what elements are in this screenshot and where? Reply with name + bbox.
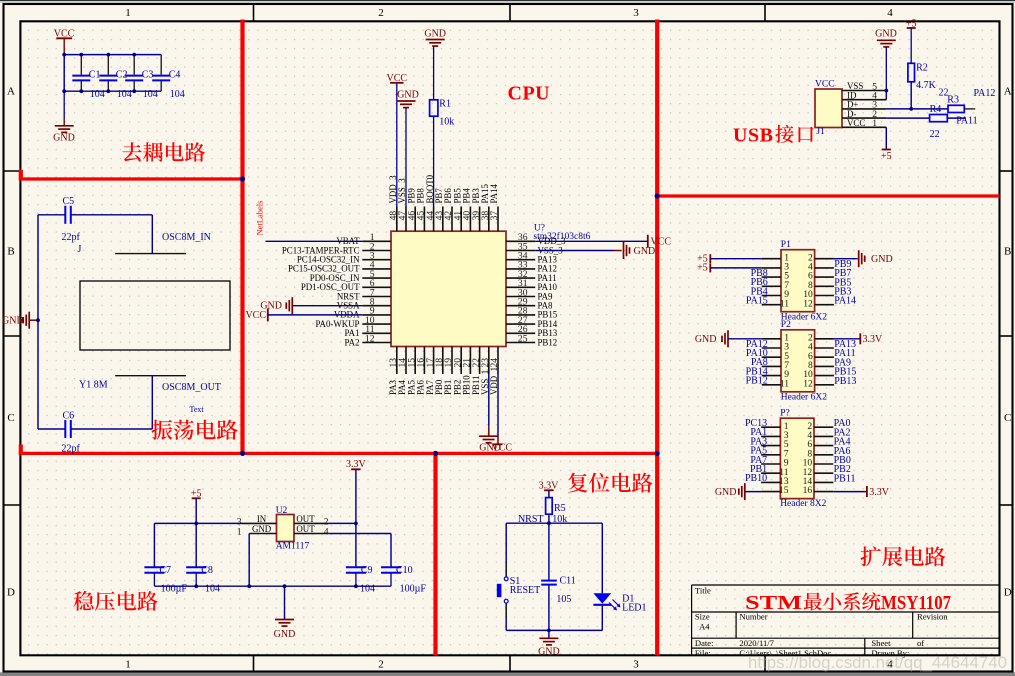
U? pin 8 VSSA (362, 305, 391, 307)
U? pin 4 PC15-OSC32_OUT (362, 268, 391, 270)
power +5 (USB bottom) (882, 149, 891, 151)
U? pin 45 PB8 (top) (423, 207, 425, 232)
svg-text:USB: USB (733, 125, 773, 147)
U? pin 22 PB11 (bottom) (479, 347, 481, 375)
svg-text:C8: C8 (201, 565, 213, 576)
U? pin 10 PA0-WKUP (362, 323, 391, 325)
svg-text:104: 104 (205, 584, 220, 595)
U? pin 40 PB4 (top) (469, 207, 471, 232)
svg-text:Size: Size (695, 612, 710, 622)
crystal Y1 body (80, 281, 230, 350)
resistor R4 (930, 115, 948, 122)
P2 pin 5 (762, 356, 781, 358)
wire R1 to BOOT0 (433, 116, 435, 206)
svg-text:4: 4 (324, 526, 329, 537)
P? pin 7 (761, 454, 780, 456)
svg-text:File:: File: (695, 648, 711, 658)
junction dot red lines C (433, 451, 438, 456)
wire P2 pin1 to GND (728, 338, 762, 340)
svg-text:R5: R5 (554, 503, 566, 514)
U? pin 25 PB12 (506, 342, 535, 344)
U? pin 26 PB13 (506, 332, 535, 334)
wire OUT pin2 (329, 522, 356, 524)
svg-text:LED1: LED1 (622, 602, 646, 613)
U? pin 23 VSS_1 (bottom) (488, 347, 490, 375)
U? pin 38 PA15 (top) (488, 207, 490, 232)
op IC U? body stm32f103c8t6 (391, 231, 506, 346)
svg-text:22pf: 22pf (62, 232, 81, 243)
P? pin 6 (814, 445, 833, 447)
svg-text:C: C (1004, 412, 1011, 424)
svg-text:22: 22 (930, 129, 940, 140)
capacitor C6 (64, 420, 66, 438)
svg-text:4: 4 (887, 7, 893, 19)
svg-text:R2: R2 (916, 63, 928, 74)
P? pin 1 (761, 426, 780, 428)
title block frame (692, 584, 1000, 586)
svg-text:C11: C11 (560, 575, 576, 586)
P2 pin 2 (815, 338, 834, 340)
U2 pin 1 GND (249, 533, 276, 535)
red partition line H3 (USB/expansion divider) (657, 194, 999, 197)
wire R3 right (964, 108, 975, 110)
svg-text:16: 16 (803, 485, 813, 496)
section title 扩展电路 (861, 546, 881, 566)
U? pin 17 PA7 (bottom) (433, 347, 435, 375)
P2 pin 7 (762, 365, 781, 367)
resistor R2 (908, 63, 915, 82)
P1 pin 7 (762, 285, 781, 287)
svg-text:37: 37 (489, 211, 500, 221)
wire regulator bottom rail (154, 585, 391, 587)
svg-text:OUT: OUT (296, 524, 315, 534)
svg-text:B: B (1004, 246, 1011, 258)
U? pin 42 PB6 (top) (451, 207, 453, 232)
U? pin 39 PB3 (top) (479, 207, 481, 232)
P1 pin 3 (762, 267, 781, 269)
P2 pin 10 (815, 375, 834, 377)
svg-text:GND: GND (871, 254, 893, 265)
U? pin 6 PD1-OSC_OUT (362, 286, 391, 288)
U? pin 34 PA13 (506, 259, 535, 261)
svg-text:A: A (7, 86, 15, 98)
J1 pin 1 VCC (842, 126, 886, 128)
svg-text:PA2: PA2 (345, 337, 360, 347)
wire C6 left (38, 428, 65, 430)
U? pin 29 PA8 (506, 305, 535, 307)
svg-text:GND: GND (538, 646, 560, 657)
wire R4 right (947, 117, 966, 119)
wire P1 pin2 to GND (834, 258, 858, 260)
svg-text:3: 3 (633, 658, 639, 670)
wire S1 branch bottom (505, 603, 507, 618)
svg-text:24: 24 (489, 358, 500, 368)
svg-text:AM1117: AM1117 (276, 542, 310, 552)
svg-text:104: 104 (143, 89, 158, 100)
capacitor C5 (64, 206, 66, 224)
section title 复位电路 (568, 473, 588, 493)
svg-text:Text: Text (190, 405, 205, 414)
svg-text:OSC8M_OUT: OSC8M_OUT (162, 382, 221, 393)
svg-text:J: J (78, 244, 82, 255)
svg-text:Sheet: Sheet (871, 638, 891, 648)
U? pin 9 VDDA (362, 314, 391, 316)
svg-text:C6: C6 (63, 411, 75, 422)
U? pin 20 PB2 (bottom) (460, 347, 462, 375)
wire VCC drop (63, 55, 65, 92)
J1 pin 2 D- (842, 117, 886, 119)
wire VSS-ID tie (885, 91, 887, 100)
wire 3.3V to C9 (355, 523, 357, 567)
U? pin 30 PA9 (506, 296, 535, 298)
svg-text:22pf: 22pf (62, 444, 81, 455)
U? pin 19 PB1 (bottom) (451, 347, 453, 375)
svg-text:STM: STM (745, 593, 802, 614)
U? pin 14 PA4 (bottom) (405, 347, 407, 375)
U? pin 33 PA12 (506, 268, 535, 270)
svg-text:100µF: 100µF (400, 584, 427, 595)
P? pin 12 (814, 472, 833, 474)
LED D1 (593, 593, 611, 603)
wire VSS_3 to GND (535, 250, 614, 252)
svg-text:3.3V: 3.3V (863, 334, 884, 345)
crystal Y1 pin line bottom (115, 375, 186, 377)
svg-text:C7: C7 (159, 565, 171, 576)
svg-text:GND: GND (274, 629, 296, 640)
capacitor C11 (541, 580, 557, 582)
P? pin 11 (761, 472, 780, 474)
resistor R1 (430, 100, 438, 116)
svg-text:OSC8M_IN: OSC8M_IN (162, 232, 211, 243)
U2 pin 3 IN (242, 522, 277, 524)
P1 pin 8 (815, 285, 834, 287)
wire VDD_1 (497, 374, 499, 436)
svg-text:2: 2 (378, 658, 384, 670)
svg-text:J1: J1 (816, 127, 825, 137)
crystal Y1 pin line top (115, 253, 186, 255)
svg-text:GND: GND (53, 133, 75, 144)
svg-text:VCC: VCC (245, 310, 266, 321)
svg-text:A4: A4 (699, 622, 710, 632)
U? pin 36 VDD_3 (506, 240, 535, 242)
power 3.3V (P?) (866, 486, 868, 497)
svg-text:PA15: PA15 (746, 296, 768, 307)
P2 pin 3 (762, 347, 781, 349)
wire VSSA (292, 305, 362, 307)
svg-text:3.3V: 3.3V (869, 487, 890, 498)
svg-text:OUT: OUT (296, 514, 315, 524)
U? pin 12 PA2 (362, 342, 391, 344)
U? pin 27 PB14 (506, 323, 535, 325)
junction dot red lines E (655, 193, 660, 198)
P? pin 5 (761, 445, 780, 447)
svg-text:15: 15 (779, 485, 789, 496)
svg-text:P2: P2 (781, 320, 791, 330)
svg-text:1: 1 (125, 658, 131, 670)
junction dot C11 bottom (547, 629, 551, 633)
resistor R3 (948, 105, 964, 112)
svg-text:VCC: VCC (492, 443, 513, 454)
ground GND (reset) (548, 630, 550, 637)
svg-text:PB10: PB10 (745, 473, 767, 484)
U? pin 35 VSS_3 (506, 250, 535, 252)
svg-text:GND: GND (875, 29, 897, 40)
svg-text:IN: IN (257, 514, 267, 524)
red partition line H1 (decoupling/oscillator divider) (20, 177, 242, 180)
svg-text:R4: R4 (930, 104, 942, 115)
junction dot red lines A (240, 176, 245, 181)
U? pin 41 PB5 (top) (460, 207, 462, 232)
svg-text:https://blog.csdn.net/qq_44644: https://blog.csdn.net/qq_44644740 (748, 653, 1007, 672)
capacitor C8 (186, 566, 206, 568)
wire NRST rail (506, 522, 602, 524)
section title 振荡电路 (152, 420, 173, 440)
ground GND (P1) (858, 250, 860, 267)
capacitor C10 (381, 566, 401, 568)
wire reset bottom rail (506, 629, 602, 631)
svg-text:R1: R1 (439, 98, 451, 109)
section title 稳压电路 (73, 591, 93, 611)
P1 pin 2 (815, 258, 834, 260)
svg-text:MSY1107: MSY1107 (881, 593, 951, 614)
capacitor C2 (107, 55, 109, 75)
U2 pin 2 OUT (294, 522, 329, 524)
svg-text:Y1 8M: Y1 8M (79, 380, 108, 391)
U? pin 46 PB9 (top) (414, 207, 416, 232)
top gray bar (0, 0, 1015, 1)
wire C11 bottom (548, 585, 550, 631)
svg-text:CPU: CPU (508, 83, 551, 105)
svg-text:3: 3 (633, 7, 639, 19)
svg-text:C4: C4 (169, 70, 181, 81)
header P? body (780, 418, 814, 498)
junction dot red lines D (655, 451, 660, 456)
P? pin 16 (814, 491, 833, 493)
wire D+ net (886, 108, 948, 110)
wire R2 bottom to D+ (910, 82, 912, 109)
wire decoupling bottom rail (64, 90, 161, 92)
J1 pin 4 ID (842, 99, 886, 101)
svg-text:Date:: Date: (695, 638, 714, 648)
svg-text:PB13: PB13 (834, 376, 856, 387)
svg-text:P1: P1 (781, 240, 791, 250)
wire C11 top (548, 523, 550, 580)
junction dot VSS (884, 89, 888, 93)
svg-text:A: A (1004, 86, 1012, 98)
svg-text:104: 104 (117, 89, 132, 100)
wire VSS_1 to GND (488, 374, 490, 427)
capacitor C9 (346, 566, 366, 568)
red partition line V1 (decoupling/CPU divider) (240, 20, 244, 454)
wire GND pin drop (248, 534, 250, 587)
svg-text:12: 12 (803, 378, 813, 389)
svg-text:2020/11/7: 2020/11/7 (739, 638, 774, 648)
P2 pin 6 (815, 356, 834, 358)
svg-text:2: 2 (378, 7, 384, 19)
P1 pin 11 (762, 304, 781, 306)
svg-text:R3: R3 (947, 94, 959, 105)
junction dots decoupling (62, 53, 66, 57)
U? pin 16 PA6 (bottom) (423, 347, 425, 375)
svg-text:1: 1 (237, 526, 242, 537)
P2 pin 1 (762, 338, 781, 340)
section title 去耦电路 (122, 142, 141, 161)
U? pin 31 PA10 (506, 286, 535, 288)
U? pin 44 BOOT0 (top) (433, 207, 435, 232)
junction dot NRST/R5 (547, 521, 551, 525)
wire D1 branch top (601, 523, 603, 593)
zone tick marks (253, 4, 255, 21)
wire C5 left (38, 214, 65, 216)
P1 pin 6 (815, 276, 834, 278)
power VCC (VDD_3 right) (647, 235, 649, 248)
U? pin 24 VDD_1 (bottom) (497, 347, 499, 375)
U? pin 2 PC13-TAMPER-RTC (362, 250, 391, 252)
capacitor C4 (160, 55, 162, 75)
svg-text:104: 104 (90, 89, 105, 100)
svg-text:C3: C3 (142, 70, 154, 81)
svg-text:+5: +5 (881, 151, 892, 162)
power 3.3V (P2) (859, 333, 861, 344)
junction dot OUT/3.3V (354, 522, 358, 526)
P? pin 13 (761, 481, 780, 483)
svg-text:12: 12 (365, 333, 375, 344)
U? pin 3 PC14-OSC32_IN (362, 259, 391, 261)
wire S1 branch top (505, 523, 507, 563)
wire VDDA (268, 314, 363, 316)
svg-text:Header 6X2: Header 6X2 (781, 392, 827, 402)
svg-text:PA14: PA14 (489, 184, 499, 204)
wire OUT pin4 to C10 (329, 533, 391, 535)
wire P? pin16 to 3.3V (833, 491, 866, 493)
P? pin 3 (761, 435, 780, 437)
U? pin 28 PB15 (506, 314, 535, 316)
svg-text:1: 1 (872, 118, 877, 129)
junction dot IN/C8 (194, 522, 198, 526)
capacitor C1 (80, 55, 82, 75)
capacitor C7 (144, 566, 164, 568)
svg-text:P?: P? (780, 409, 790, 419)
U? pin 5 PD0-OSC_IN (362, 277, 391, 279)
svg-text:GND: GND (424, 28, 446, 39)
red partition line V2 (regulator/reset divider) (433, 453, 437, 655)
J1 pin 3 D+ (842, 108, 886, 110)
junction dot D+/R2 (909, 107, 913, 111)
capacitor C3 (133, 55, 135, 75)
svg-text:C1: C1 (89, 70, 101, 81)
svg-text:100µF: 100µF (161, 584, 188, 595)
svg-text:11: 11 (780, 378, 789, 389)
svg-text:NetLabels: NetLabels (255, 201, 265, 236)
wire C7 top lead (153, 523, 155, 567)
wire oscillator left vertical (37, 215, 39, 429)
P2 pin 12 (815, 384, 834, 386)
wire D- net (886, 117, 929, 119)
svg-text:PB12: PB12 (746, 376, 768, 387)
svg-text:VCC: VCC (847, 118, 865, 128)
U? pin 7 NRST (362, 296, 391, 298)
svg-text:GND: GND (634, 246, 656, 257)
U2 pin 4 OUT (294, 533, 329, 535)
svg-text:104: 104 (360, 584, 375, 595)
junction dot red lines B (240, 451, 245, 456)
P1 pin 4 (815, 267, 834, 269)
connector J1 body (815, 89, 842, 128)
svg-text:PA11: PA11 (956, 115, 978, 126)
svg-text:B: B (7, 246, 14, 258)
U? pin 15 PA5 (bottom) (414, 347, 416, 375)
ground GND (VSS_1) (479, 435, 498, 437)
wire D1 branch bottom (601, 605, 603, 631)
svg-text:105: 105 (556, 594, 571, 605)
U? pin 21 PB10 (bottom) (469, 347, 471, 375)
ground GND (decoupling) (63, 91, 65, 119)
svg-text:GND: GND (695, 334, 717, 345)
svg-text:PB12: PB12 (538, 337, 558, 347)
svg-text:11: 11 (780, 298, 789, 309)
svg-text:Header 8X2: Header 8X2 (780, 499, 826, 509)
svg-text:104: 104 (170, 89, 185, 100)
wire P2 pin2 to 3.3V (834, 338, 860, 340)
svg-text:25: 25 (518, 333, 528, 344)
U? pin 32 PA11 (506, 277, 535, 279)
svg-text:PB11: PB11 (834, 473, 856, 484)
resistor R5 (546, 498, 553, 515)
svg-text:GND: GND (715, 487, 737, 498)
svg-text:12: 12 (803, 298, 813, 309)
wire VBAT (266, 240, 363, 242)
U? pin 48 VDD_3 (top) (396, 207, 398, 232)
bottom gray bar (0, 672, 1015, 676)
wire IN rail (154, 522, 242, 524)
regulator U2 body (277, 515, 295, 542)
U? pin 13 PA3 (bottom) (396, 347, 398, 375)
P1 pin 9 (762, 295, 781, 297)
ground GND (VSS_3 right) (623, 242, 625, 259)
svg-text:VCC: VCC (815, 79, 835, 89)
header P1 body (781, 250, 815, 312)
junction dots bottom rail (194, 584, 198, 588)
svg-text:U2: U2 (276, 506, 288, 516)
svg-text:PA12: PA12 (974, 88, 996, 99)
P2 pin 8 (815, 365, 834, 367)
P? pin 15 (761, 491, 780, 493)
P1 pin 12 (815, 304, 834, 306)
P1 pin 10 (815, 295, 834, 297)
svg-text:1: 1 (125, 7, 131, 19)
P? pin 9 (761, 463, 780, 465)
U? pin 43 PB7 (top) (442, 207, 444, 232)
svg-text:GND: GND (397, 90, 419, 101)
P2 pin 9 (762, 375, 781, 377)
P? pin 2 (814, 426, 833, 428)
P? pin 4 (814, 435, 833, 437)
P2 pin 11 (762, 384, 781, 386)
wire P? pin15 to GND (745, 491, 761, 493)
svg-text:+5: +5 (697, 263, 708, 274)
svg-text:4.7K: 4.7K (916, 80, 937, 91)
wire decoupling top rail (64, 54, 161, 56)
U? pin 37 PA14 (top) (497, 207, 499, 232)
svg-text:C10: C10 (396, 565, 413, 576)
red partition line H2 (bottom section divider) (20, 452, 657, 455)
svg-text:C5: C5 (63, 196, 75, 207)
svg-text:C: C (7, 412, 14, 424)
U? pin 18 PB0 (bottom) (442, 347, 444, 375)
ground GND (regulator) (284, 586, 286, 619)
svg-text:of: of (917, 638, 924, 648)
header P2 body (781, 330, 815, 392)
